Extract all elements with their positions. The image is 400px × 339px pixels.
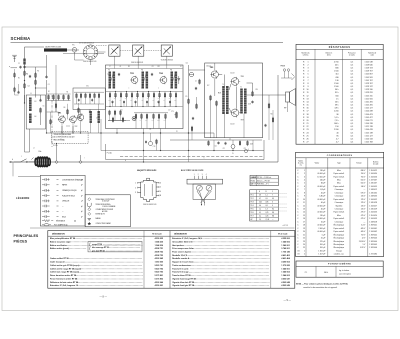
- legend2 row 6: [88, 222, 92, 225]
- svg-text:125 V: 125 V: [361, 202, 366, 204]
- svg-text:1 500: 1 500: [334, 71, 339, 73]
- svg-text:1 345 028: 1 345 028: [369, 202, 377, 204]
- left section extra wires: [24, 103, 26, 152]
- rail junction dots: [100, 150, 102, 152]
- note box measurement conditions: [52, 131, 88, 143]
- bloc crossing cords: [197, 191, 205, 203]
- legend row resistance symbol: [42, 220, 44, 222]
- svg-text:TR4: TR4: [159, 72, 164, 75]
- svg-text:Électrolytique: Électrolytique: [334, 246, 345, 249]
- junction diamond 2: [79, 160, 82, 163]
- svg-text:R6: R6: [64, 107, 66, 109]
- svg-text:avec interrupteur: avec interrupteur: [339, 272, 351, 275]
- svg-text:L4: L4: [33, 148, 35, 150]
- ferrite rod antenna L1 (black bar): [44, 48, 67, 51]
- svg-text:SCHÉMA: SCHÉMA: [11, 36, 31, 41]
- svg-text:1 705 149: 1 705 149: [281, 250, 289, 253]
- IF stage caps row: [112, 101, 114, 103]
- svg-text:FI2: FI2: [141, 70, 143, 72]
- resistor R16: [196, 105, 198, 109]
- svg-text:0,7: 0,7: [259, 198, 261, 200]
- maquette pins left: [138, 182, 141, 184]
- svg-text:1 344 034: 1 344 034: [369, 173, 377, 175]
- svg-text:C: C: [297, 179, 299, 181]
- svg-text:2: 2: [304, 254, 305, 256]
- svg-text:2: 2: [307, 64, 308, 66]
- maquette pins right: [156, 182, 159, 184]
- svg-text:36 k: 36 k: [335, 89, 339, 91]
- svg-text:0,5: 0,5: [351, 105, 354, 107]
- osc block caps: [78, 99, 80, 101]
- svg-text:code: code: [370, 55, 374, 57]
- resistor R5: [40, 109, 42, 113]
- oscillator coil box L3 L4: [26, 95, 45, 129]
- bloc stems: [201, 199, 203, 205]
- AF amplifier box: [205, 63, 263, 138]
- transistor TR3 IF1: [131, 77, 138, 84]
- svg-text:1,3: 1,3: [266, 209, 268, 211]
- svg-text:R12: R12: [158, 66, 161, 68]
- svg-text:Coffret bois rouge RT 58 (noye: Coffret bois rouge RT 58 (noyer): [50, 271, 79, 274]
- chassis dash-dot vertical: [51, 95, 53, 147]
- svg-text:18: 18: [306, 114, 308, 116]
- svg-text:40 000 pF: 40 000 pF: [317, 225, 325, 227]
- AF box extra wires: [214, 63, 216, 70]
- svg-text:26: 26: [306, 138, 308, 140]
- svg-text:4 508 751: 4 508 751: [155, 247, 163, 250]
- svg-text:Décor barrettes arrière RT 58: Décor barrettes arrière RT 58: [50, 274, 76, 277]
- svg-text:R: R: [303, 129, 305, 131]
- svg-text:Pu: Pu: [72, 45, 74, 47]
- measure table 2: [250, 190, 279, 221]
- svg-text:130: 130: [335, 80, 338, 82]
- svg-text:0,6: 0,6: [259, 205, 261, 207]
- svg-text:CÉRAMIQUE DISQUE: CÉRAMIQUE DISQUE: [62, 189, 77, 192]
- svg-text:PLAQUETTE MICA: PLAQUETTE MICA: [62, 194, 75, 197]
- svg-text:R2: R2: [48, 91, 50, 93]
- svg-text:125 µF: 125 µF: [320, 241, 325, 243]
- variant bracket box: [88, 242, 142, 252]
- wire speaker feed: [263, 94, 286, 96]
- svg-text:R1: R1: [26, 74, 28, 76]
- svg-text:13: 13: [303, 209, 305, 211]
- svg-text:4: 4: [160, 191, 161, 193]
- legend box 2: [85, 195, 130, 227]
- junction dots on bus: [100, 132, 101, 133]
- top feed wires into boxes: [90, 60, 92, 66]
- parts table header: [48, 235, 295, 237]
- bloc roller right: [206, 185, 212, 191]
- svg-text:1 521 139: 1 521 139: [365, 126, 373, 128]
- svg-text:21: 21: [303, 234, 305, 236]
- svg-text:96: 96: [140, 120, 142, 122]
- svg-text:23: 23: [303, 241, 305, 243]
- svg-text:1 345 029: 1 345 029: [369, 209, 377, 211]
- svg-text:0,5: 0,5: [351, 61, 354, 63]
- svg-text:1 501 767: 1 501 767: [365, 80, 373, 82]
- svg-text:24: 24: [306, 132, 308, 134]
- svg-text:4 700: 4 700: [334, 61, 339, 63]
- svg-text:560: 560: [158, 98, 160, 100]
- svg-text:0,5: 0,5: [351, 108, 354, 110]
- svg-text:1: 1: [304, 250, 305, 252]
- svg-text:Bloc préamplificateur RT 58: Bloc préamplificateur RT 58: [50, 237, 75, 240]
- svg-text:C: C: [297, 221, 299, 223]
- svg-text:C: C: [297, 228, 299, 230]
- wire into AF box: [189, 69, 205, 71]
- AF box internal wires: [219, 74, 223, 76]
- svg-text:R: R: [303, 68, 305, 70]
- bloc lower box: [193, 184, 216, 199]
- svg-text:a: a: [9, 66, 10, 68]
- svg-text:1 305 pF: 1 305 pF: [318, 250, 325, 252]
- svg-text:µF: µF: [81, 201, 83, 203]
- svg-text:rouge RT 58: rouge RT 58: [92, 244, 102, 246]
- svg-text:C4: C4: [48, 84, 50, 86]
- svg-text:125 V: 125 V: [361, 205, 366, 207]
- svg-text:R: R: [303, 64, 305, 66]
- svg-text:0,9: 0,9: [266, 198, 268, 200]
- svg-text:POTENTIOMÈTRE: POTENTIOMÈTRE: [328, 263, 351, 266]
- capacitor C1: [19, 66, 21, 68]
- svg-text:4: 4: [304, 179, 305, 181]
- svg-text:de code: de code: [373, 164, 379, 166]
- svg-text:4 503 049: 4 503 049: [281, 284, 289, 287]
- svg-text:4 503 046: 4 503 046: [155, 281, 163, 284]
- svg-text:R20: R20: [256, 89, 259, 91]
- svg-text:Tension: Tension: [356, 163, 362, 165]
- svg-text:0,5: 0,5: [351, 68, 354, 70]
- electrolytic C24: [231, 145, 235, 149]
- svg-text:GAMME: GAMME: [251, 176, 257, 179]
- svg-text:1 346 001: 1 346 001: [281, 267, 289, 270]
- svg-text:130: 130: [114, 98, 116, 100]
- svg-text:430: 430: [335, 77, 338, 79]
- svg-text:Transfo fil 1 sortie: Transfo fil 1 sortie: [172, 267, 188, 270]
- wire vertical feeds to mixer: [46, 80, 48, 118]
- svg-text:1 369 042: 1 369 042: [369, 234, 377, 236]
- svg-text:0,1: 0,1: [259, 212, 261, 214]
- svg-text:1 348 018: 1 348 018: [369, 221, 377, 223]
- antenna terminal a: [11, 67, 18, 69]
- svg-text:125 V: 125 V: [361, 209, 366, 211]
- svg-text:1 501 127: 1 501 127: [365, 108, 373, 110]
- svg-text:R: R: [303, 120, 305, 122]
- svg-text:5: 5: [160, 187, 161, 189]
- svg-text:R: R: [303, 92, 305, 94]
- svg-text:FI1: FI1: [108, 70, 110, 72]
- between-box parts: [199, 80, 201, 83]
- svg-text:Groupe: Groupe: [336, 249, 342, 252]
- svg-text:6: 6: [272, 205, 273, 207]
- svg-text:3: 3: [135, 192, 136, 194]
- IF row1 connector stubs: [109, 97, 111, 107]
- svg-text:C: C: [297, 173, 299, 175]
- svg-text:0,5: 0,5: [351, 132, 354, 134]
- svg-text:C22: C22: [223, 148, 226, 150]
- svg-text:4 290 001: 4 290 001: [155, 284, 163, 287]
- svg-text:C11: C11: [152, 66, 155, 68]
- svg-text:1 345 067: 1 345 067: [369, 183, 377, 185]
- svg-text:Numéro: Numéro: [373, 161, 379, 164]
- svg-text:0,5: 0,5: [351, 98, 354, 100]
- svg-text:100 µF: 100 µF: [320, 244, 325, 246]
- volume pot P1: [176, 113, 178, 118]
- svg-text:Vignette bleu clair RT 58: Vignette bleu clair RT 58: [172, 281, 194, 284]
- driver transformer T4: [222, 86, 225, 114]
- svg-text:1 541 491: 1 541 491: [365, 101, 373, 103]
- svg-text:0,5: 0,5: [351, 89, 354, 91]
- mid-bottom cluster near PL.CA: [148, 141, 152, 145]
- svg-text:1 501 491: 1 501 491: [365, 105, 373, 107]
- svg-text:TR2: TR2: [75, 126, 78, 128]
- wire trimmer CT1 stub: [113, 56, 115, 65]
- resistor R22 right edge: [268, 104, 270, 108]
- svg-text:C23: C23: [244, 148, 247, 150]
- IF transformer T1 secondary: [113, 72, 116, 89]
- svg-text:6,80 pF: 6,80 pF: [319, 196, 325, 198]
- svg-text:1 344 053: 1 344 053: [369, 212, 377, 214]
- svg-text:R: R: [303, 114, 305, 116]
- svg-text:C: C: [297, 231, 299, 233]
- bloc roller left: [197, 185, 203, 191]
- svg-text:Puissance: Puissance: [348, 53, 356, 55]
- oscillator winding L3: [29, 98, 32, 112]
- legend row 3 capacitor symbol: [42, 189, 45, 191]
- svg-text:1 529 310: 1 529 310: [365, 89, 373, 91]
- svg-text:Électrolytique: Électrolytique: [334, 237, 345, 240]
- svg-text:56k: 56k: [169, 98, 171, 100]
- jack at rail: [244, 149, 247, 152]
- svg-text:—: —: [364, 189, 366, 191]
- svg-text:455 kc/s — PO GO: 455 kc/s — PO GO: [257, 180, 271, 182]
- svg-text:2 200: 2 200: [334, 111, 339, 113]
- svg-text:6: 6: [160, 183, 161, 185]
- bracket box leaders: [104, 243, 141, 245]
- svg-text:pF: pF: [81, 195, 83, 197]
- svg-text:C19: C19: [248, 104, 251, 106]
- svg-text:100k: 100k: [157, 120, 160, 122]
- svg-text:40 000 pF: 40 000 pF: [317, 186, 325, 188]
- parts table frame: [48, 231, 295, 289]
- svg-text:13,5/8 V: 13,5/8 V: [359, 241, 366, 243]
- svg-text:e: e: [158, 88, 159, 90]
- bias resistor row: [48, 96, 50, 99]
- svg-text:20: 20: [303, 231, 305, 233]
- svg-text:1 501 708: 1 501 708: [365, 142, 373, 144]
- svg-text:N° de Code: N° de Code: [152, 233, 161, 235]
- svg-text:680: 680: [335, 68, 338, 70]
- svg-text:C: C: [297, 218, 299, 220]
- svg-text:R: R: [303, 95, 305, 97]
- svg-text:0,5: 0,5: [351, 117, 354, 119]
- IF trimmer C8: [151, 73, 153, 75]
- svg-text:R: R: [303, 105, 305, 107]
- electrolytic in IF box: [132, 117, 136, 121]
- svg-text:TR 4: TR 4: [250, 205, 253, 207]
- trimmer capacitor CT3: [161, 45, 172, 56]
- IF box internal rail: [106, 91, 183, 93]
- svg-text:Papier métall.: Papier métall.: [334, 185, 345, 188]
- wire trimmer CT2 stub: [137, 56, 139, 65]
- svg-text:log. à charbon: log. à charbon: [339, 270, 349, 272]
- svg-text:RÉSISTANCE: RÉSISTANCE: [56, 220, 65, 223]
- svg-text:11: 11: [307, 92, 309, 94]
- svg-text:16: 16: [306, 108, 308, 110]
- svg-text:CONDENSATEUR CÉRAMIQUE: CONDENSATEUR CÉRAMIQUE: [62, 178, 83, 181]
- svg-text:Coffret arrière gris RT 58 (no: Coffret arrière gris RT 58 (noyer): [50, 264, 80, 267]
- svg-text:I: I: [84, 158, 85, 160]
- svg-text:1 369 041: 1 369 041: [369, 225, 377, 227]
- condensateurs header: [296, 167, 384, 169]
- svg-text:8: 8: [304, 192, 305, 194]
- svg-text:Valeur: Valeur: [315, 162, 320, 165]
- svg-text:1 344 055: 1 344 055: [369, 186, 377, 188]
- svg-text:130 pF: 130 pF: [320, 170, 325, 172]
- svg-text:16: 16: [303, 218, 305, 220]
- svg-text:N° de Code: N° de Code: [278, 233, 287, 235]
- padder capacitor C5: [39, 99, 41, 101]
- svg-text:TR 5: TR 5: [250, 209, 253, 211]
- svg-text:20: 20: [306, 120, 308, 122]
- svg-text:1: 1: [304, 170, 305, 172]
- bias resistors AF: [210, 96, 212, 100]
- svg-text:C: C: [297, 244, 299, 246]
- svg-text:OSC: OSC: [86, 86, 89, 88]
- svg-text:C18: C18: [153, 146, 156, 148]
- svg-text:1 344 235: 1 344 235: [155, 240, 163, 243]
- svg-text:R18: R18: [218, 93, 221, 95]
- svg-text:C5: C5: [60, 139, 62, 141]
- feedback capacitor C20: [251, 101, 253, 103]
- svg-text:40 k: 40 k: [335, 64, 339, 66]
- svg-text:36k: 36k: [147, 98, 149, 100]
- svg-text:0,5: 0,5: [351, 92, 354, 94]
- svg-text:C: C: [297, 202, 299, 204]
- svg-text:R: R: [303, 108, 305, 110]
- svg-text:1 347 067: 1 347 067: [369, 179, 377, 181]
- svg-text:Transfo fil 2 rouge: Transfo fil 2 rouge: [172, 272, 188, 274]
- svg-text:C: C: [297, 170, 299, 172]
- svg-text:Électrolytique: Électrolytique: [334, 233, 345, 236]
- svg-text:— 9 —: — 9 —: [284, 299, 292, 302]
- svg-text:du sché-: du sché-: [298, 162, 304, 164]
- svg-text:Céramique: Céramique: [335, 191, 344, 194]
- svg-text:bleu marengo RT 58: bleu marengo RT 58: [92, 247, 109, 249]
- IF row2 connector stubs: [135, 118, 137, 128]
- svg-text:91 k: 91 k: [335, 92, 339, 94]
- svg-text:C6: C6: [43, 106, 45, 108]
- svg-text:18: 18: [303, 225, 305, 227]
- svg-text:L6: L6: [96, 118, 98, 120]
- svg-text:40 000 pF: 40 000 pF: [317, 231, 325, 233]
- IF row2 top rail: [134, 112, 168, 114]
- legend row 6 capacitor symbol: [42, 205, 45, 207]
- svg-text:C: C: [297, 215, 299, 217]
- svg-text:2 200: 2 200: [334, 129, 339, 131]
- svg-text:1 346 003: 1 346 003: [281, 274, 289, 277]
- svg-text:CONDUCTEUR GAINÉ: CONDUCTEUR GAINÉ: [96, 222, 111, 225]
- legend row 8 capacitor symbol: [42, 216, 45, 218]
- svg-text:LÉGENDE: LÉGENDE: [16, 197, 30, 200]
- svg-text:4 401 464: 4 401 464: [281, 257, 290, 260]
- svg-text:7,5 k: 7,5 k: [335, 120, 339, 122]
- gang capacitor link dashes: [96, 45, 108, 47]
- svg-text:Mica: Mica: [337, 215, 341, 217]
- svg-text:1 344 027: 1 344 027: [369, 205, 377, 207]
- svg-text:Numéro de: Numéro de: [368, 52, 376, 55]
- svg-text:R: R: [303, 123, 305, 125]
- svg-text:R8: R8: [128, 66, 130, 68]
- resistor R6 between mixers: [67, 110, 69, 114]
- svg-text:TR 6: TR 6: [250, 212, 253, 214]
- svg-text:C: C: [297, 238, 299, 240]
- maquette outline: [141, 180, 156, 201]
- bias row stubs: [48, 99, 50, 101]
- junction dots rails: [143, 150, 144, 151]
- svg-text:4 508 753: 4 508 753: [155, 254, 163, 257]
- trimmer capacitor CT2: [133, 45, 144, 56]
- svg-text:Papier métall.: Papier métall.: [334, 175, 345, 178]
- drop wires to bus: [116, 129, 118, 134]
- svg-text:4,7: 4,7: [336, 142, 339, 144]
- svg-text:Papier métall.: Papier métall.: [334, 172, 345, 175]
- svg-text:1 348 033: 1 348 033: [369, 196, 377, 198]
- svg-text:gris clair RT 58: gris clair RT 58: [92, 251, 105, 253]
- transistor TR2 mixer: [70, 116, 77, 123]
- resistor R4: [35, 81, 37, 85]
- svg-text:40 000 pF: 40 000 pF: [317, 199, 325, 201]
- svg-text:100 µF: 100 µF: [320, 247, 325, 249]
- svg-text:R: R: [303, 80, 305, 82]
- condensateurs table frame: [296, 152, 384, 256]
- svg-text:0,5: 0,5: [351, 101, 354, 103]
- svg-text:0,1: 0,1: [195, 81, 197, 83]
- transistor TR6 output upper: [231, 78, 239, 86]
- svg-text:1 501 807: 1 501 807: [365, 74, 373, 76]
- svg-text:56 k: 56 k: [335, 101, 339, 103]
- svg-text:750 V: 750 V: [361, 176, 366, 178]
- legend2 row 4: [88, 212, 91, 215]
- svg-text:0,1: 0,1: [259, 216, 261, 218]
- svg-text:—: —: [364, 221, 366, 223]
- wire mixer collectors: [61, 126, 63, 133]
- svg-text:1 k: 1 k: [336, 98, 339, 100]
- svg-text:CADRE FERROXCUBE: CADRE FERROXCUBE: [45, 46, 61, 49]
- IF decoupling resistors row2: [135, 115, 137, 119]
- svg-text:22: 22: [306, 126, 308, 128]
- svg-text:Grenouillère fileté k 18: Grenouillère fileté k 18: [172, 240, 192, 243]
- svg-text:39 k: 39 k: [335, 105, 339, 107]
- svg-text:5,1k: 5,1k: [145, 120, 148, 122]
- svg-text:1 521 941: 1 521 941: [365, 98, 373, 100]
- svg-text:R: R: [303, 126, 305, 128]
- svg-text:10 pF: 10 pF: [321, 221, 325, 223]
- svg-text:ma: ma: [300, 164, 302, 166]
- svg-text:C: C: [297, 225, 299, 227]
- svg-text:P 1: P 1: [305, 272, 308, 274]
- svg-text:15: 15: [306, 105, 308, 107]
- svg-text:—: —: [272, 219, 274, 221]
- svg-text:Rondelle 3,5×7,5: Rondelle 3,5×7,5: [172, 254, 187, 257]
- potentiometre table frame: [296, 261, 383, 277]
- svg-text:4 401 463: 4 401 463: [281, 254, 289, 257]
- right-side parts: [272, 118, 274, 122]
- svg-text:4 503 047: 4 503 047: [281, 277, 289, 280]
- svg-text:240 pF: 240 pF: [320, 179, 325, 181]
- svg-text:2: 2: [135, 187, 136, 189]
- svg-text:CV VU DE DESSOUS: CV VU DE DESSOUS: [79, 43, 94, 45]
